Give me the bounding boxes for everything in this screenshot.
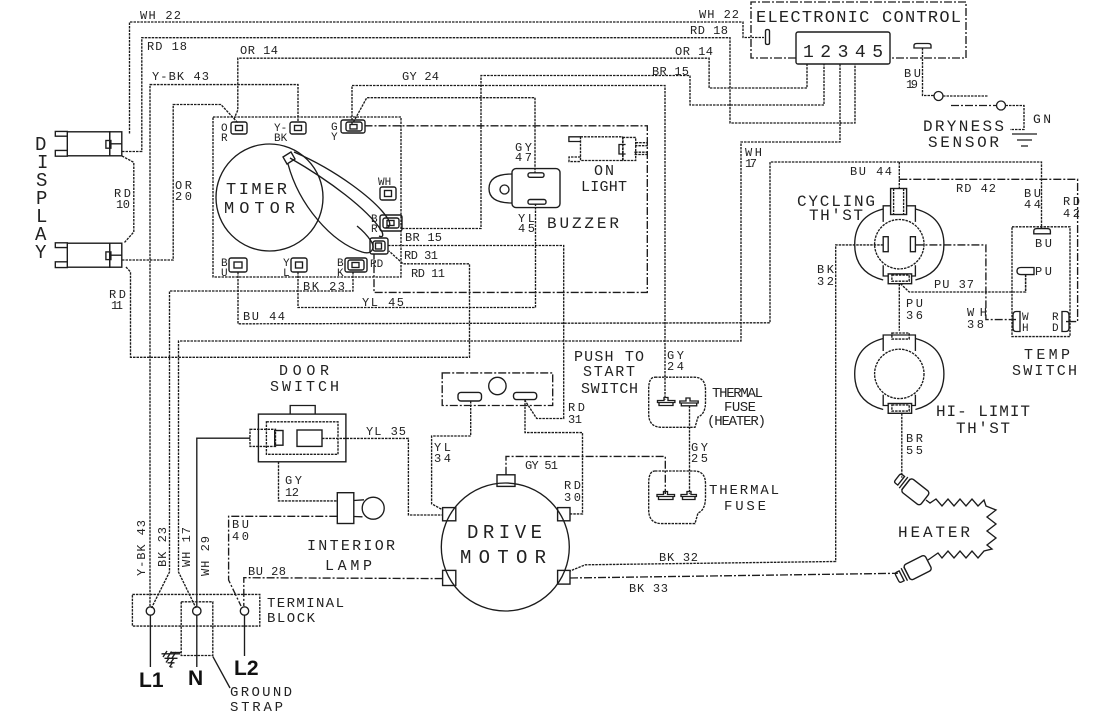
door switch left plug: [250, 429, 276, 446]
terminal OR (timer): [221, 122, 247, 145]
svg-text:GY 24: GY 24: [402, 70, 439, 84]
thermal fuse (heater) body: [649, 377, 706, 427]
svg-text:R: R: [221, 133, 228, 145]
svg-text:Y-BK 43: Y-BK 43: [152, 70, 209, 84]
svg-text:BK 33: BK 33: [629, 582, 668, 596]
svg-text:WH 22: WH 22: [699, 8, 739, 22]
buzzer ear hole: [500, 185, 509, 194]
wire YL 34 (push-start to drive motor left): [432, 401, 471, 510]
svg-text:START: START: [583, 364, 635, 381]
svg-text:H: H: [1022, 323, 1029, 335]
on light right box: [623, 137, 636, 160]
svg-text:1 2 3 4 5: 1 2 3 4 5: [803, 43, 883, 63]
thermal fuse body: [649, 471, 706, 524]
hi-limit left lobe: [855, 339, 884, 410]
cycling thermostat right contact bar: [910, 237, 915, 252]
wire GY/RD route (timer GY terminal right, around on-light, to timer RD terminal): [365, 126, 648, 293]
svg-text:SWITCH: SWITCH: [581, 381, 638, 398]
temp switch RD terminal: [1062, 312, 1070, 332]
svg-text:YL 45: YL 45: [362, 296, 404, 310]
svg-text:TERMINAL: TERMINAL: [267, 596, 344, 612]
svg-text:GY 51: GY 51: [525, 459, 558, 473]
svg-text:BR 15: BR 15: [405, 231, 442, 245]
heater top plug: [892, 471, 930, 506]
wire BR 55 (hi-limit to heater): [901, 413, 903, 477]
terminal GY (timer): [331, 120, 365, 144]
wire BU 40 (interior lamp to terminal block L2): [229, 516, 338, 606]
lead L2: [244, 615, 246, 656]
svg-text:BK 32: BK 32: [659, 551, 698, 565]
heater bottom plug: [893, 555, 932, 586]
door switch outer box: [258, 414, 346, 462]
temp switch PU terminal: [1017, 268, 1034, 275]
wire RD 42 (cycling top to temp switch RD): [899, 179, 1077, 321]
wire OR 20 (display lower connector to timer OR terminal): [122, 105, 238, 261]
svg-text:WH 29: WH 29: [199, 536, 213, 576]
door switch inner box: [266, 422, 338, 455]
wire GY 47 (timer GY terminal to buzzer top): [354, 98, 536, 173]
thermal fuse right terminal: [681, 492, 696, 500]
svg-text:OR 14: OR 14: [675, 45, 713, 59]
wire PU 37 (cycling bottom to temp switch PU): [901, 275, 1026, 292]
wire BU 28 (drive motor to terminal block L2): [244, 578, 443, 606]
svg-text:BU 44: BU 44: [243, 310, 285, 324]
wire Y-BK 43 (timer Y-BK terminal to terminal block L1): [150, 85, 298, 606]
svg-text:PU 37: PU 37: [934, 278, 974, 292]
svg-text:BK: BK: [274, 133, 288, 145]
cycling thermostat bottom stem: [888, 274, 911, 284]
wire GY 25 (fuse to fuse): [689, 406, 691, 494]
cycling thermostat bottom block: [883, 265, 915, 276]
cycling thermostat right lobe: [915, 209, 944, 280]
ground symbol (strap): [162, 654, 181, 667]
thermal fuse (heater) right terminal: [680, 398, 698, 406]
svg-text:WH: WH: [378, 177, 391, 189]
on light lower electrode: [569, 157, 581, 162]
push to start left contact: [458, 392, 482, 401]
temp switch PU wire stub: [1025, 275, 1027, 292]
svg-text:RD 42: RD 42: [956, 182, 996, 196]
interior lamp socket: [337, 493, 354, 524]
dryness sensor contact 2: [997, 101, 1006, 110]
cycling thermostat left lobe: [855, 209, 884, 280]
svg-text:U: U: [221, 268, 228, 280]
svg-text:ELECTRONIC CONTROL: ELECTRONIC CONTROL: [756, 9, 961, 28]
svg-text:Y: Y: [35, 242, 47, 264]
wire YL 35 (door switch to drive motor): [322, 438, 443, 515]
svg-text:D: D: [1052, 323, 1059, 335]
terminal BK (timer): [337, 258, 367, 280]
wire BU 19 (control to dryness sensor): [923, 48, 934, 96]
svg-text:ON: ON: [594, 163, 614, 180]
wire WH 38 (cycling right to temp switch WH): [915, 245, 1012, 320]
wire GN (sensor to ground): [1006, 106, 1025, 130]
timer motor circle: [216, 144, 323, 251]
push to start switch box: [442, 373, 553, 406]
wire YL 45 (timer YL terminal to buzzer bottom): [298, 204, 536, 307]
connector block 1 2 3 4 5: [796, 32, 890, 64]
svg-text:TH'ST: TH'ST: [956, 420, 1010, 438]
svg-text:Y-BK 43: Y-BK 43: [135, 520, 149, 576]
push to start right contact: [514, 392, 537, 399]
wire RD 31 (timer RD terminal to push-start switch): [388, 246, 564, 419]
wire RD 10 (display upper connector to lower connector): [122, 156, 134, 243]
wire WH 22 (display to electronic control): [130, 22, 765, 134]
svg-text:RD 18: RD 18: [147, 40, 187, 54]
svg-text:WH 22: WH 22: [140, 9, 181, 23]
svg-text:BU 44: BU 44: [850, 165, 892, 179]
svg-text:L1: L1: [139, 669, 164, 692]
lead N: [196, 615, 198, 667]
terminal N circle: [193, 607, 201, 615]
lead L1: [149, 615, 151, 667]
svg-text:RD: RD: [370, 259, 384, 271]
svg-text:TIMER: TIMER: [226, 181, 289, 200]
svg-text:OR 14: OR 14: [240, 44, 278, 58]
buzzer bottom terminal: [528, 200, 546, 205]
svg-text:(HEATER): (HEATER): [707, 414, 766, 430]
wire WH 29 (door switch to terminal block N): [197, 438, 250, 607]
drive motor circle: [441, 483, 569, 611]
svg-text:BK 23: BK 23: [156, 527, 170, 567]
terminal RD (timer): [370, 238, 388, 271]
wire OR 14 (timer OR terminal to pin 1): [234, 58, 807, 119]
terminal Y-BK (timer): [274, 122, 306, 145]
pin BU19 terminal: [914, 44, 931, 49]
wire BR 15 (timer BR terminal to pin 2): [402, 64, 824, 229]
svg-text:TH'ST: TH'ST: [809, 207, 863, 225]
drive motor right lower terminal: [558, 570, 570, 584]
terminal L2 circle: [240, 607, 248, 615]
display upper connector: [55, 131, 122, 156]
svg-text:BK 23: BK 23: [303, 280, 345, 294]
svg-text:WH 17: WH 17: [180, 527, 194, 567]
heater element zigzag: [926, 499, 996, 560]
wire BK 32 (cycling left to drive motor): [570, 245, 883, 571]
svg-text:Y: Y: [331, 132, 338, 144]
wire GY 24 (timer GY terminal to thermal fuse heater): [352, 86, 665, 400]
cycling thermostat stem: [891, 189, 907, 215]
timer cam follower curves: [294, 152, 390, 227]
buzzer left ear: [489, 174, 512, 203]
svg-text:RD 31: RD 31: [404, 249, 438, 263]
svg-text:HI- LIMIT: HI- LIMIT: [936, 403, 1030, 421]
dryness sensor contact 1: [934, 92, 943, 101]
svg-text:R: R: [371, 224, 378, 236]
hi-limit thermostat top block: [883, 335, 915, 351]
wire WH 17 (pin 3 to terminal block N): [179, 64, 841, 608]
buzzer top terminal: [528, 173, 544, 178]
on light electrode flag: [569, 137, 581, 142]
svg-text:31: 31: [568, 413, 582, 427]
svg-text:11: 11: [111, 299, 123, 313]
terminal block box: [132, 594, 259, 626]
cycling thermostat disc: [875, 220, 924, 269]
svg-text:MOTOR: MOTOR: [460, 547, 549, 569]
on light body: [581, 137, 624, 161]
svg-text:RD 18: RD 18: [690, 24, 728, 38]
svg-text:MOTOR: MOTOR: [224, 200, 297, 219]
wire BU 44 (timer BU terminal to temp switch BU terminal): [238, 162, 1042, 324]
terminal L1 circle: [146, 607, 154, 615]
timer cam marker: [283, 152, 295, 164]
drive motor left upper terminal: [443, 508, 456, 521]
ground wire (strap to earth): [171, 652, 182, 654]
wire GY 12 (door switch to interior lamp): [279, 462, 338, 501]
hi-limit right lobe: [915, 339, 944, 410]
hi-limit bottom block: [883, 395, 915, 406]
svg-text:STRAP: STRAP: [230, 700, 283, 716]
thermal fuse left terminal: [657, 492, 675, 500]
svg-text:K: K: [337, 268, 344, 280]
svg-text:L: L: [283, 268, 290, 280]
door switch top bump: [290, 406, 315, 415]
wire BU44 into cycling top: [898, 162, 900, 189]
display lower connector: [55, 243, 122, 268]
svg-text:THERMAL: THERMAL: [709, 483, 779, 499]
wire PU 36 (cycling bottom to hi-limit top): [898, 284, 900, 331]
svg-text:17: 17: [745, 157, 757, 171]
wire RD 18 (display to pin 4): [122, 38, 855, 152]
svg-text:BU 28: BU 28: [248, 565, 286, 579]
timer motor box: [213, 117, 401, 277]
ground strap box: [181, 602, 213, 656]
svg-text:LIGHT: LIGHT: [581, 179, 627, 196]
push to start button circle: [489, 377, 506, 394]
wire BK 23 (timer BK terminal to terminal block L1): [152, 272, 354, 608]
svg-text:10: 10: [116, 198, 130, 212]
ground strap callout line: [213, 656, 230, 688]
temp switch BU terminal: [1034, 229, 1051, 234]
svg-text:BLOCK: BLOCK: [267, 611, 316, 627]
dryness sensor blade 1: [943, 95, 988, 97]
svg-text:19: 19: [906, 78, 918, 92]
wire RD 30 (push-start to drive motor right): [525, 400, 583, 514]
wire RD 11 (display lower connector to timer RD terminal): [126, 251, 470, 357]
svg-text:YL 35: YL 35: [366, 425, 406, 439]
door switch contact box: [297, 430, 322, 446]
svg-text:L2: L2: [234, 657, 259, 680]
drive motor top terminal: [497, 475, 515, 487]
cycling thermostat top block: [883, 206, 915, 222]
terminal BU (timer): [221, 258, 247, 280]
drive motor left lower terminal: [443, 570, 456, 585]
ground symbol (dryness sensor): [1012, 134, 1037, 146]
on light right prongs: [635, 143, 647, 155]
thermal fuse (heater) left terminal: [658, 398, 675, 406]
hi-limit disc: [875, 349, 924, 398]
temp switch box: [1012, 227, 1070, 337]
svg-text:N: N: [188, 667, 203, 690]
svg-text:RD 11: RD 11: [411, 267, 445, 281]
pin WH22 inside control: [766, 30, 770, 45]
hi-limit bottom stem: [888, 404, 911, 414]
cycling thermostat left contact bar: [883, 237, 888, 252]
wire GY 51 (drive motor top to thermal fuse): [506, 456, 665, 494]
svg-text:12: 12: [285, 486, 299, 500]
temp switch WH terminal: [1012, 312, 1020, 332]
wire BK 33 (drive motor to heater): [570, 573, 898, 578]
interior lamp bulb: [354, 500, 364, 517]
electronic control box: [751, 2, 966, 58]
drive motor right upper terminal: [558, 508, 570, 521]
terminal WH (timer): [378, 177, 396, 200]
terminal BR (timer): [371, 214, 402, 236]
dryness sensor blade 2: [951, 105, 997, 107]
svg-text:DRIVE: DRIVE: [467, 522, 545, 544]
on light bracket: [619, 145, 626, 155]
svg-text:BR 15: BR 15: [652, 65, 689, 79]
terminal YL (timer): [283, 258, 307, 280]
buzzer body: [512, 169, 560, 208]
